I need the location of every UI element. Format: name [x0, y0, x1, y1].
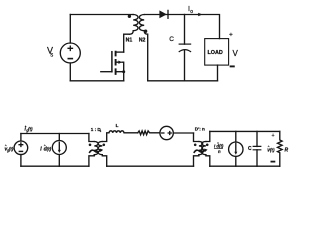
svg-text:(t): (t): [47, 147, 52, 152]
svg-text:(t): (t): [270, 148, 275, 153]
arrow Io current: [198, 13, 202, 16]
current source I d(t)/n: [229, 131, 243, 166]
wire bottom rail middle: [107, 165, 194, 167]
wire bottom rail output: [210, 165, 280, 167]
voltage source e d(t): [160, 126, 194, 139]
svg-text:N1: N1: [126, 37, 133, 43]
label v(t) minus: [271, 161, 274, 163]
label v(t): [267, 145, 275, 154]
svg-text:+: +: [272, 133, 275, 139]
wire LOAD bottom lead: [217, 65, 219, 81]
svg-text:L: L: [116, 123, 119, 128]
wire Vs bottom lead: [69, 63, 71, 81]
current source I d(t): [52, 134, 66, 167]
inductor L: [107, 131, 138, 133]
LOAD box: [205, 39, 229, 66]
svg-text:n: n: [218, 149, 221, 154]
voltage source vg: [14, 134, 28, 167]
transformer T1 dot primary: [128, 15, 131, 18]
label Vs: [47, 46, 53, 59]
svg-text:(t): (t): [28, 127, 33, 132]
resistor R load: [278, 131, 283, 166]
resistor series: [138, 131, 160, 135]
svg-text:LOAD: LOAD: [208, 50, 223, 56]
svg-text:(t): (t): [9, 147, 14, 152]
capacitor C: [179, 15, 190, 81]
label Io: [188, 6, 193, 15]
svg-text:o: o: [190, 9, 193, 15]
wire bottom rail primary: [70, 80, 123, 82]
label vg(t): [5, 144, 14, 153]
wire top rail left: [21, 133, 89, 135]
svg-text:I d(t): I d(t): [214, 143, 224, 148]
wire Vs top lead: [69, 15, 71, 44]
svg-text:N2: N2: [139, 37, 146, 43]
transformer T1 dot secondary: [144, 30, 147, 33]
svg-text:R: R: [285, 147, 289, 153]
label ig(t): [25, 125, 34, 132]
transistor Q1 MOSFET: [101, 52, 125, 81]
svg-text:+: +: [229, 31, 233, 38]
svg-text:I: I: [40, 147, 42, 153]
voltage source Vs: [60, 43, 80, 63]
svg-text:D′: n: D′: n: [195, 127, 205, 132]
wire bottom rail secondary: [148, 80, 218, 82]
wire bottom rail left: [21, 165, 89, 167]
svg-text:C: C: [169, 36, 174, 43]
label V output minus: [231, 65, 234, 67]
transformer X2 ideal D':n: [194, 131, 210, 166]
wire top rail output: [210, 130, 280, 132]
transformer T1 secondary winding N2: [139, 15, 147, 81]
svg-text:s: s: [100, 129, 102, 133]
label I d(t)/n fraction: [214, 141, 224, 154]
svg-text:V: V: [233, 49, 239, 58]
transformer X1 ideal 1:D: [89, 134, 107, 167]
svg-text:s: s: [50, 53, 53, 59]
wire top rail primary: [70, 14, 133, 16]
wire drain to transformer: [124, 34, 130, 52]
label 1:D: [91, 127, 102, 133]
transformer T1 primary winding N1: [130, 15, 139, 35]
wire top rail secondary: [144, 15, 219, 39]
diode D1: [159, 10, 168, 18]
capacitor C output: [253, 131, 261, 166]
svg-text:C: C: [248, 146, 252, 152]
label I d(t): [40, 144, 51, 152]
